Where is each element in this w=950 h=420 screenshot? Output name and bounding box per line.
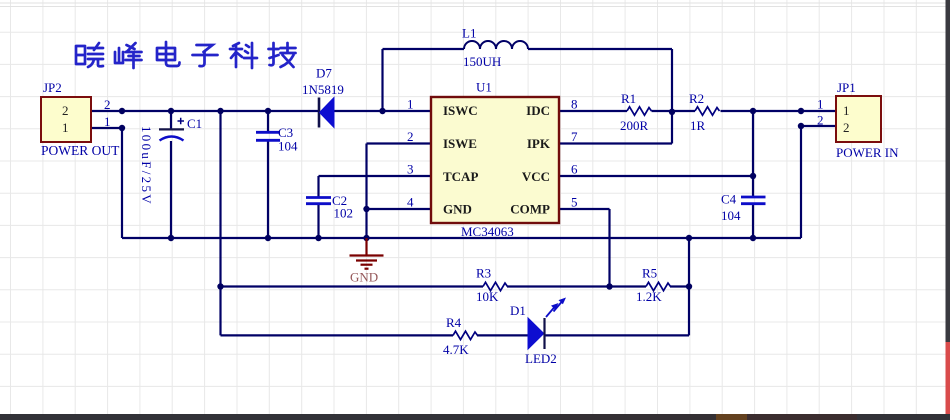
LED D1 triangle [528,318,544,349]
wire TCAP vertical to C2 [317,176,319,197]
svg-text:ISWE: ISWE [443,136,477,151]
wire JP2 pin1 stub [91,127,122,129]
svg-text:L1: L1 [462,26,476,41]
node L1 left / diode cathode row [379,108,385,114]
wire C4 vertical bottom to rail [752,204,754,238]
wire GND pin4 stub [367,208,432,210]
resistor R5 zigzag [646,282,671,290]
svg-text:D1: D1 [510,303,526,318]
node C1 bottom on rail [168,235,174,241]
capacitor C1 top plate [159,128,184,130]
svg-text:U1: U1 [476,80,492,95]
diode D7 triangle [320,98,335,128]
wire LED cathode to right vertical [545,334,690,336]
resistor R1 zigzag [627,107,652,115]
resistor R2 zigzag [695,107,720,115]
svg-text:LED2: LED2 [525,351,557,366]
connector JP2 body [41,97,91,142]
wire IPK row pin7 [559,142,672,144]
svg-text:150UH: 150UH [463,54,501,69]
wire L1 right lead to corner [528,48,672,50]
node L1 right / IDC row [669,109,675,115]
svg-text:104: 104 [278,139,298,154]
node output vertical top [217,108,223,114]
wire LED row left to R4 [221,334,454,336]
svg-text:GND: GND [443,202,472,217]
svg-text:2: 2 [62,103,69,118]
svg-text:1N5819: 1N5819 [302,82,344,97]
svg-text:200R: 200R [620,118,649,133]
svg-text:R2: R2 [689,91,704,106]
svg-text:1.2K: 1.2K [636,289,662,304]
wire left vertical from JP2 pin1 down to ground rail [121,128,123,238]
node JP1 pin1 [798,108,804,114]
wire COMP vertical down to feedback row [608,209,610,287]
svg-text:7: 7 [571,129,578,144]
LED D1 cathode bar [543,318,545,349]
svg-text:1: 1 [843,103,850,118]
node C1 top [168,108,174,114]
wire L1 right vertical down to IPK row [671,49,673,144]
wire C3 vertical bottom [267,141,269,238]
title char 子 [193,45,218,66]
connector JP1 body [836,96,881,142]
svg-text:COMP: COMP [510,202,550,217]
title char 技 [269,43,296,67]
svg-text:6: 6 [571,162,578,177]
node C2 bottom on rail [315,235,321,241]
wire top row: D7 triangle to U1 pin1 [334,110,431,112]
svg-text:104: 104 [721,208,741,223]
inductor L1 coil [464,41,528,49]
node GND on rail [363,235,369,241]
svg-text:4: 4 [407,195,414,210]
title char 晓 [76,43,103,67]
svg-text:4.7K: 4.7K [443,342,469,357]
node JP2 pin1 corner [119,125,125,131]
svg-text:2: 2 [104,97,111,112]
op-amp U1 body (MC34063 IC) [431,97,559,223]
LED D1 emission arrows [546,298,566,318]
svg-text:TCAP: TCAP [443,169,478,184]
svg-text:POWER OUT: POWER OUT [41,143,120,158]
node output/feedback row junction [217,283,223,289]
svg-text:MC34063: MC34063 [461,224,514,239]
capacitor C3 plates [256,131,280,134]
wire output vertical x=220 from top row down to LED row [219,111,221,335]
svg-text:C4: C4 [721,192,737,207]
node right vertical on rail [686,235,692,241]
node ISWE/GND pin junction [363,206,369,212]
svg-text:JP2: JP2 [43,80,62,95]
node R5 right junction [686,283,692,289]
svg-text:3: 3 [407,162,414,177]
svg-text:R5: R5 [642,266,657,281]
wire R5 to right vertical [670,285,689,287]
svg-text:1: 1 [817,97,824,112]
capacitor C2 plates [306,196,331,199]
svg-text:R4: R4 [446,315,462,330]
svg-text:R3: R3 [476,266,491,281]
svg-text:IDC: IDC [526,103,550,118]
svg-text:1R: 1R [690,118,706,133]
wire feedback row left: output vertical to R3 [221,285,484,287]
ground symbol [350,238,384,269]
capacitor C1 plus sign [178,118,185,124]
wire JP1 pin2 stub [801,125,836,127]
capacitor C4 plates [741,196,766,199]
wire R3 to COMP node [507,285,646,287]
wire ISWE vertical down to rail [365,144,367,239]
wire VCC pin6 row [559,175,753,177]
svg-text:D7: D7 [316,66,332,81]
svg-text:ISWC: ISWC [443,103,478,118]
node JP1 pin2 corner [798,123,804,129]
node C4 bottom on rail [750,235,756,241]
wire C3 vertical top [267,111,269,132]
svg-text:VCC: VCC [522,169,550,184]
node C3 top [265,108,271,114]
svg-text:JP1: JP1 [837,80,856,95]
svg-text:102: 102 [334,206,354,221]
svg-text:R1: R1 [621,91,636,106]
wire right vertical rail to LED row [688,238,690,335]
wire right vertical JP1 pin2 down to rail [800,126,802,238]
wire C1 vertical top [170,111,172,129]
wire top row left: JP2 pin2 to D7 anode-bar [91,110,319,112]
svg-text:2: 2 [817,113,824,128]
wire ground rail [122,237,801,239]
diode D7 cathode bar [318,98,321,128]
svg-text:8: 8 [571,97,578,112]
svg-text:100uF/25V: 100uF/25V [139,126,154,206]
wire COMP pin5 stub [559,208,610,210]
wire L1 left vertical [381,49,383,111]
wire R2 to JP1 pin1 [721,110,837,112]
svg-text:1: 1 [104,114,111,129]
title char 科 [230,43,257,68]
node COMP feedback junction [606,283,612,289]
wire R1 to R2 [652,110,696,112]
node JP2 pin2 junction [119,108,125,114]
title char 电 [157,42,180,66]
wire top row right: U1 pin8 to R1 [559,110,627,112]
svg-text:10K: 10K [476,289,499,304]
wire C4 vertical top from output row [752,111,754,197]
svg-text:C1: C1 [187,116,202,131]
node C4 top [750,108,756,114]
svg-text:IPK: IPK [527,136,551,151]
svg-text:2: 2 [843,120,850,135]
wire C2 vertical bottom [317,204,319,238]
title char 峰 [115,43,142,68]
svg-text:1: 1 [62,120,69,135]
svg-text:GND: GND [350,270,378,285]
svg-text:2: 2 [407,129,414,144]
resistor R3 zigzag [483,282,508,290]
wire L1 left lead [383,48,465,50]
wire TCAP pin3 stub [319,175,432,177]
wire C1 vertical bottom [170,141,172,238]
resistor R4 zigzag [453,331,478,339]
wire R4 to LED anode [477,334,528,336]
svg-text:5: 5 [571,195,578,210]
svg-text:1: 1 [407,97,414,112]
svg-text:POWER IN: POWER IN [836,145,899,160]
wire ISWE pin2 to vertical [367,142,432,144]
node VCC/C4 junction [750,173,756,179]
capacitor C1 curved plate [160,137,184,141]
node C3 bottom on rail [265,235,271,241]
